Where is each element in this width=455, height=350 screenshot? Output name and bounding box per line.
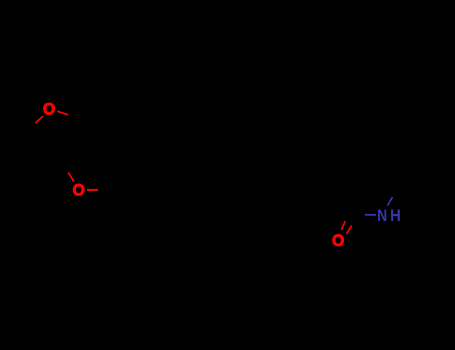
svg-text:O: O xyxy=(332,232,344,250)
svg-text:O: O xyxy=(73,181,85,199)
svg-text:H: H xyxy=(390,207,401,225)
svg-text:O: O xyxy=(43,100,55,118)
svg-text:N: N xyxy=(377,207,387,226)
